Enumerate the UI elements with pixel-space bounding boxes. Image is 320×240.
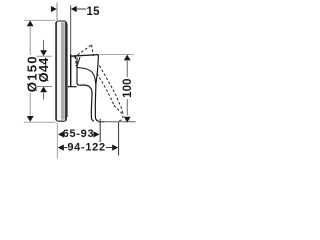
dim 94-122: left tail line: [64, 147, 68, 149]
dashed blade lowered: back edge: [97, 74, 114, 106]
hub underside curve: [77, 67, 96, 83]
dim 100: top arrowhead (up): [124, 55, 131, 61]
dim 15 right extension (upper sleeve back line): [70, 5, 72, 54]
wall plate shading band: [61, 23, 65, 120]
svg-text:65-93: 65-93: [63, 128, 95, 140]
dim 15: tail line: [77, 8, 87, 10]
dim 94-122: left arrowhead (pointing left): [58, 145, 64, 151]
dim D150: top arrowhead (up): [27, 21, 34, 27]
dim 65-93: right extension line: [99, 119, 101, 142]
dim D44: top arrowhead (down): [40, 50, 47, 56]
dim D150: dimension line upper segment: [29, 27, 31, 55]
dim D150: top extension line: [24, 19, 55, 21]
dim 100: bottom extension line: [98, 121, 136, 123]
svg-text:100: 100: [122, 78, 134, 98]
dim D44: bottom arrowhead (up): [40, 87, 47, 93]
dashed blade lowered: rounded tip: [119, 111, 123, 121]
wall plate front face line: [65, 22, 67, 120]
dim D150: dimension line lower segment: [29, 93, 31, 116]
wall plate outline: [56, 21, 66, 121]
dim D44: bottom extension line: [35, 86, 52, 88]
blade back edge: [80, 85, 94, 121]
sleeve front line: [77, 58, 80, 86]
dim D44: bottom leader line: [43, 93, 45, 100]
dashed blade lowered: tip face: [114, 105, 123, 114]
dashed blade lowered: front edge: [99, 66, 122, 112]
dim 15: left extension line: [56, 3, 58, 21]
dim 65-93: right arrowhead (pointing right): [93, 131, 99, 137]
hub back taper line: [77, 57, 80, 66]
dim 15: left arrowhead (pointing right): [51, 6, 57, 12]
sleeve back line: [70, 55, 72, 87]
dim 94-122: right extension line: [118, 122, 120, 156]
dashed handle raised: end face: [92, 45, 94, 56]
wall plate (escutcheon, side view) fill: [56, 21, 67, 122]
svg-text:15: 15: [87, 6, 101, 18]
dim D150: bottom extension line: [24, 121, 56, 123]
dashed handle raised: top edge: [74, 45, 92, 58]
dim 100: top extension line: [100, 53, 135, 55]
dim 94-122: right arrowhead (pointing right): [112, 145, 118, 151]
dim 94-122: right tail line: [106, 147, 113, 149]
lever top edge: [70, 55, 98, 57]
dim 100: dimension line lower segment: [126, 99, 128, 116]
dim 100: bottom arrowhead (down): [124, 117, 131, 123]
dim 65-93: left arrowhead (pointing left): [58, 131, 64, 137]
wall plate back edge emphasis: [55, 22, 57, 120]
dim D44: top leader line: [43, 40, 45, 51]
dim 65-93: left extension line: [56, 123, 58, 158]
lever hub right face and blade front edge: [95, 55, 104, 122]
wall plate front lip line: [67, 24, 69, 118]
svg-text:Ø44: Ø44: [36, 57, 51, 82]
sleeve bottom edge: [68, 86, 77, 88]
svg-text:94-122: 94-122: [67, 142, 105, 154]
dim 15: right arrowhead (pointing left): [71, 6, 77, 12]
dim 100: dimension line upper segment: [126, 61, 128, 77]
dashed handle raised: back edge: [74, 57, 77, 67]
dim D44: top extension line: [36, 55, 51, 57]
dim D150: bottom arrowhead (down): [27, 116, 34, 122]
